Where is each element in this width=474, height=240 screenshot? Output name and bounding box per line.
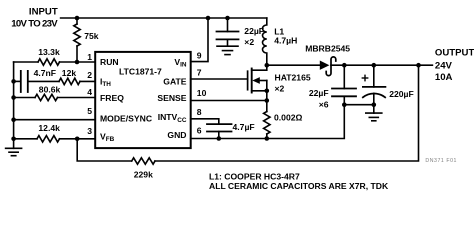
wire GATE pin7 [191, 78, 248, 80]
svg-text:1: 1 [87, 52, 92, 62]
capacitor 220uF output [362, 65, 413, 113]
svg-text:GND: GND [167, 130, 186, 140]
resistor 12.4k VFB row [14, 123, 96, 142]
svg-text:5: 5 [87, 106, 92, 116]
node OUTPUT label [435, 48, 474, 84]
pin numbers right [197, 50, 207, 135]
svg-text:3: 3 [87, 126, 92, 136]
svg-text:VFB: VFB [100, 131, 115, 143]
svg-text:OUTPUT: OUTPUT [435, 48, 474, 59]
svg-text:10V TO 23V: 10V TO 23V [11, 19, 58, 30]
svg-text:SENSE: SENSE [157, 93, 186, 103]
svg-text:12.4k: 12.4k [38, 123, 60, 133]
capacitor 22uF x2 input [217, 18, 265, 47]
junction dot sense bottom [265, 136, 270, 141]
diode D1 MBRB2545 [305, 44, 350, 76]
transistor Q1 HAT2165 x2 [248, 65, 311, 93]
svg-text:ITH: ITH [100, 77, 111, 89]
ground left rail [6, 139, 22, 156]
note L1 [209, 172, 389, 192]
svg-text:75k: 75k [84, 31, 99, 41]
svg-text:10: 10 [197, 88, 207, 98]
junction dot rail/MODE [11, 117, 16, 122]
svg-text:4.7µF: 4.7µF [233, 122, 255, 132]
resistor 12k [59, 68, 95, 85]
wire left rail [13, 62, 15, 139]
capacitor 22uF x6 output [309, 65, 356, 109]
svg-text:12k: 12k [62, 68, 77, 78]
IC internal labels [100, 57, 187, 143]
junction dot rail/FREQ [11, 95, 16, 100]
ground 22uF x2 [217, 46, 238, 54]
resistor Rsense 0.002ohm [264, 91, 303, 139]
svg-text:22µF: 22µF [244, 26, 264, 36]
svg-text:22µF: 22µF [309, 88, 329, 98]
svg-text:9: 9 [197, 50, 202, 60]
svg-text:INTVCC: INTVCC [158, 112, 187, 124]
svg-text:7: 7 [197, 68, 202, 78]
svg-text:10A: 10A [435, 72, 453, 83]
ground 220uF [366, 113, 382, 121]
junction dot source node [265, 89, 270, 94]
svg-text:INPUT: INPUT [29, 6, 58, 17]
junction dot rail/feedback [416, 63, 421, 68]
junction dot 75k/RUN [75, 60, 80, 65]
svg-text:4.7µH: 4.7µH [274, 36, 297, 46]
wire input rail [61, 17, 267, 19]
svg-text:229k: 229k [134, 170, 153, 180]
svg-text:8: 8 [197, 107, 202, 117]
svg-text:×2: ×2 [275, 84, 285, 94]
svg-text:0.002Ω: 0.002Ω [274, 113, 303, 123]
junction dot rail/220uF [372, 63, 377, 68]
svg-text:220µF: 220µF [389, 89, 414, 99]
svg-text:L1: COOPER HC3-4R7: L1: COOPER HC3-4R7 [209, 172, 300, 182]
junction dot rail/22uFx2 [225, 16, 230, 21]
junction dot 220uF gnd tie [372, 102, 377, 107]
junction dot sense [265, 98, 270, 103]
svg-text:VIN: VIN [174, 57, 187, 69]
wire pin9 VIN riser [191, 18, 208, 62]
pin numbers left [87, 52, 92, 136]
junction dot rail/VFB [11, 137, 16, 142]
capacitor 4.7nF [14, 68, 59, 92]
svg-text:80.6k: 80.6k [39, 84, 61, 94]
svg-text:DN371 F01: DN371 F01 [425, 158, 456, 164]
wire MODE/SYNC row [14, 119, 96, 121]
junction dot 22uFx6 gnd tie [342, 102, 347, 107]
junction dot switch node [265, 63, 270, 68]
resistor 75k [74, 18, 99, 62]
svg-text:2: 2 [87, 70, 92, 80]
svg-text:4: 4 [87, 87, 92, 97]
svg-text:×2: ×2 [244, 37, 254, 47]
junction dot rail/22uFx6 [342, 63, 347, 68]
op-amp U1 LTC1871-7 IC box [95, 52, 191, 148]
svg-text:HAT2165: HAT2165 [275, 73, 311, 83]
svg-text:ALL CERAMIC CAPACITORS ARE X7R: ALL CERAMIC CAPACITORS ARE X7R, TDK [209, 181, 389, 191]
resistor 229k feedback [77, 65, 418, 179]
svg-text:24V: 24V [435, 60, 453, 71]
wire GND pin6 bottom [191, 96, 345, 138]
svg-text:RUN: RUN [100, 57, 119, 67]
svg-text:GATE: GATE [163, 77, 187, 87]
wire SENSE pin10 [191, 100, 267, 102]
wire gnd tie [344, 104, 374, 106]
junction dot VFB feedback tap [75, 137, 80, 142]
wire switch node to diode [267, 64, 320, 66]
svg-text:4.7nF: 4.7nF [34, 68, 56, 78]
svg-text:LTC1871-7: LTC1871-7 [119, 66, 162, 76]
resistor 13.3k RUN row [14, 47, 96, 65]
node INPUT label [11, 6, 58, 29]
svg-text:FREQ: FREQ [100, 93, 124, 103]
junction dot rail/75k [75, 16, 80, 21]
svg-text:MODE/SYNC: MODE/SYNC [100, 114, 152, 124]
wire output rail [331, 64, 432, 66]
svg-text:6: 6 [197, 126, 202, 136]
junction dot rail/pin9 [206, 16, 211, 21]
resistor 80.6k FREQ row [14, 84, 96, 100]
svg-text:13.3k: 13.3k [38, 47, 60, 57]
capacitor 4.7uF INTVCC [191, 119, 255, 139]
junction dot rail/ITH [11, 79, 16, 84]
svg-text:MBRB2545: MBRB2545 [305, 44, 350, 54]
inductor L1 4.7uH [262, 18, 297, 65]
junction dot 4.7uF/GND [217, 136, 222, 141]
svg-text:×6: ×6 [319, 100, 329, 110]
